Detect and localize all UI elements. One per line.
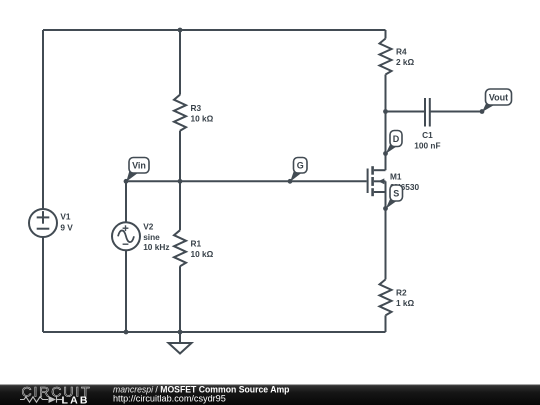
voltage source V1 — [29, 209, 57, 237]
node Vout anchor — [480, 109, 485, 114]
junction bottom rail / ground — [178, 330, 183, 335]
svg-text:http://circuitlab.com/csydr95: http://circuitlab.com/csydr95 — [113, 394, 226, 404]
svg-text:LAB: LAB — [62, 394, 90, 405]
node Vin flag — [126, 158, 149, 182]
junction gate wire / R3-R1 — [178, 179, 183, 184]
wire C1 right to Vout — [430, 111, 482, 113]
svg-text:R2: R2 — [396, 288, 407, 298]
node S flag — [386, 185, 403, 209]
svg-text:Vin: Vin — [132, 161, 146, 171]
wire left rail upper — [42, 30, 44, 209]
junction top rail / R3 — [178, 28, 183, 33]
logo resistor-diode glyph — [20, 396, 62, 402]
resistor R1 — [174, 230, 186, 266]
node D flag — [386, 131, 402, 154]
wire R4 top lead — [385, 30, 387, 39]
resistor R3 — [174, 95, 186, 131]
svg-text:100 nF: 100 nF — [414, 141, 440, 151]
wire R1 top lead — [179, 181, 181, 230]
resistor R4 — [380, 39, 392, 75]
node Vout flag — [482, 89, 512, 112]
capacitor C1 — [425, 98, 430, 127]
transistor M1 — [368, 166, 386, 196]
wire left rail lower — [42, 237, 44, 332]
svg-text:G: G — [297, 161, 304, 171]
node Vin anchor — [124, 179, 129, 184]
wire gate horizontal — [126, 180, 367, 182]
svg-text:R3: R3 — [191, 103, 202, 113]
wire R2 bottom lead — [385, 315, 387, 332]
wire source vertical — [385, 192, 387, 279]
wire top rail — [43, 29, 386, 31]
resistor R2 — [380, 279, 392, 315]
svg-text:sine: sine — [143, 232, 160, 242]
wire bottom rail — [43, 331, 386, 333]
svg-text:V1: V1 — [60, 212, 71, 222]
wire drain vertical — [385, 112, 387, 171]
ground — [169, 332, 192, 354]
wire R3 bottom lead — [179, 131, 181, 182]
wire R4 bottom lead — [385, 75, 387, 112]
svg-text:1 kΩ: 1 kΩ — [396, 298, 415, 308]
svg-text:D: D — [393, 134, 400, 144]
node S anchor — [383, 206, 388, 211]
node D anchor — [383, 151, 388, 156]
node G anchor — [288, 179, 293, 184]
svg-text:V2: V2 — [143, 221, 154, 231]
svg-text:2 kΩ: 2 kΩ — [396, 57, 415, 67]
junction bottom rail / V2 — [124, 330, 129, 335]
svg-text:S: S — [393, 189, 399, 199]
wire Vin to V2 — [125, 181, 127, 222]
wire R3 top lead — [179, 30, 181, 95]
svg-text:9 V: 9 V — [60, 223, 73, 233]
svg-text:M1: M1 — [390, 172, 402, 182]
wire R1 bottom lead — [179, 266, 181, 332]
sine source V2 — [112, 222, 140, 250]
svg-text:10 kHz: 10 kHz — [143, 242, 169, 252]
junction drain / C1 — [383, 109, 388, 114]
node G flag — [290, 158, 307, 182]
svg-text:R4: R4 — [396, 47, 407, 57]
wire C1 left — [386, 111, 426, 113]
svg-text:Vout: Vout — [489, 92, 508, 102]
wire V2 to bottom — [125, 250, 127, 332]
M1 bulk arrow — [378, 178, 384, 184]
footer bar — [0, 385, 540, 405]
svg-text:10 kΩ: 10 kΩ — [191, 113, 214, 123]
svg-text:R1: R1 — [191, 238, 202, 248]
svg-text:10 kΩ: 10 kΩ — [191, 249, 214, 259]
svg-text:C1: C1 — [422, 130, 433, 140]
